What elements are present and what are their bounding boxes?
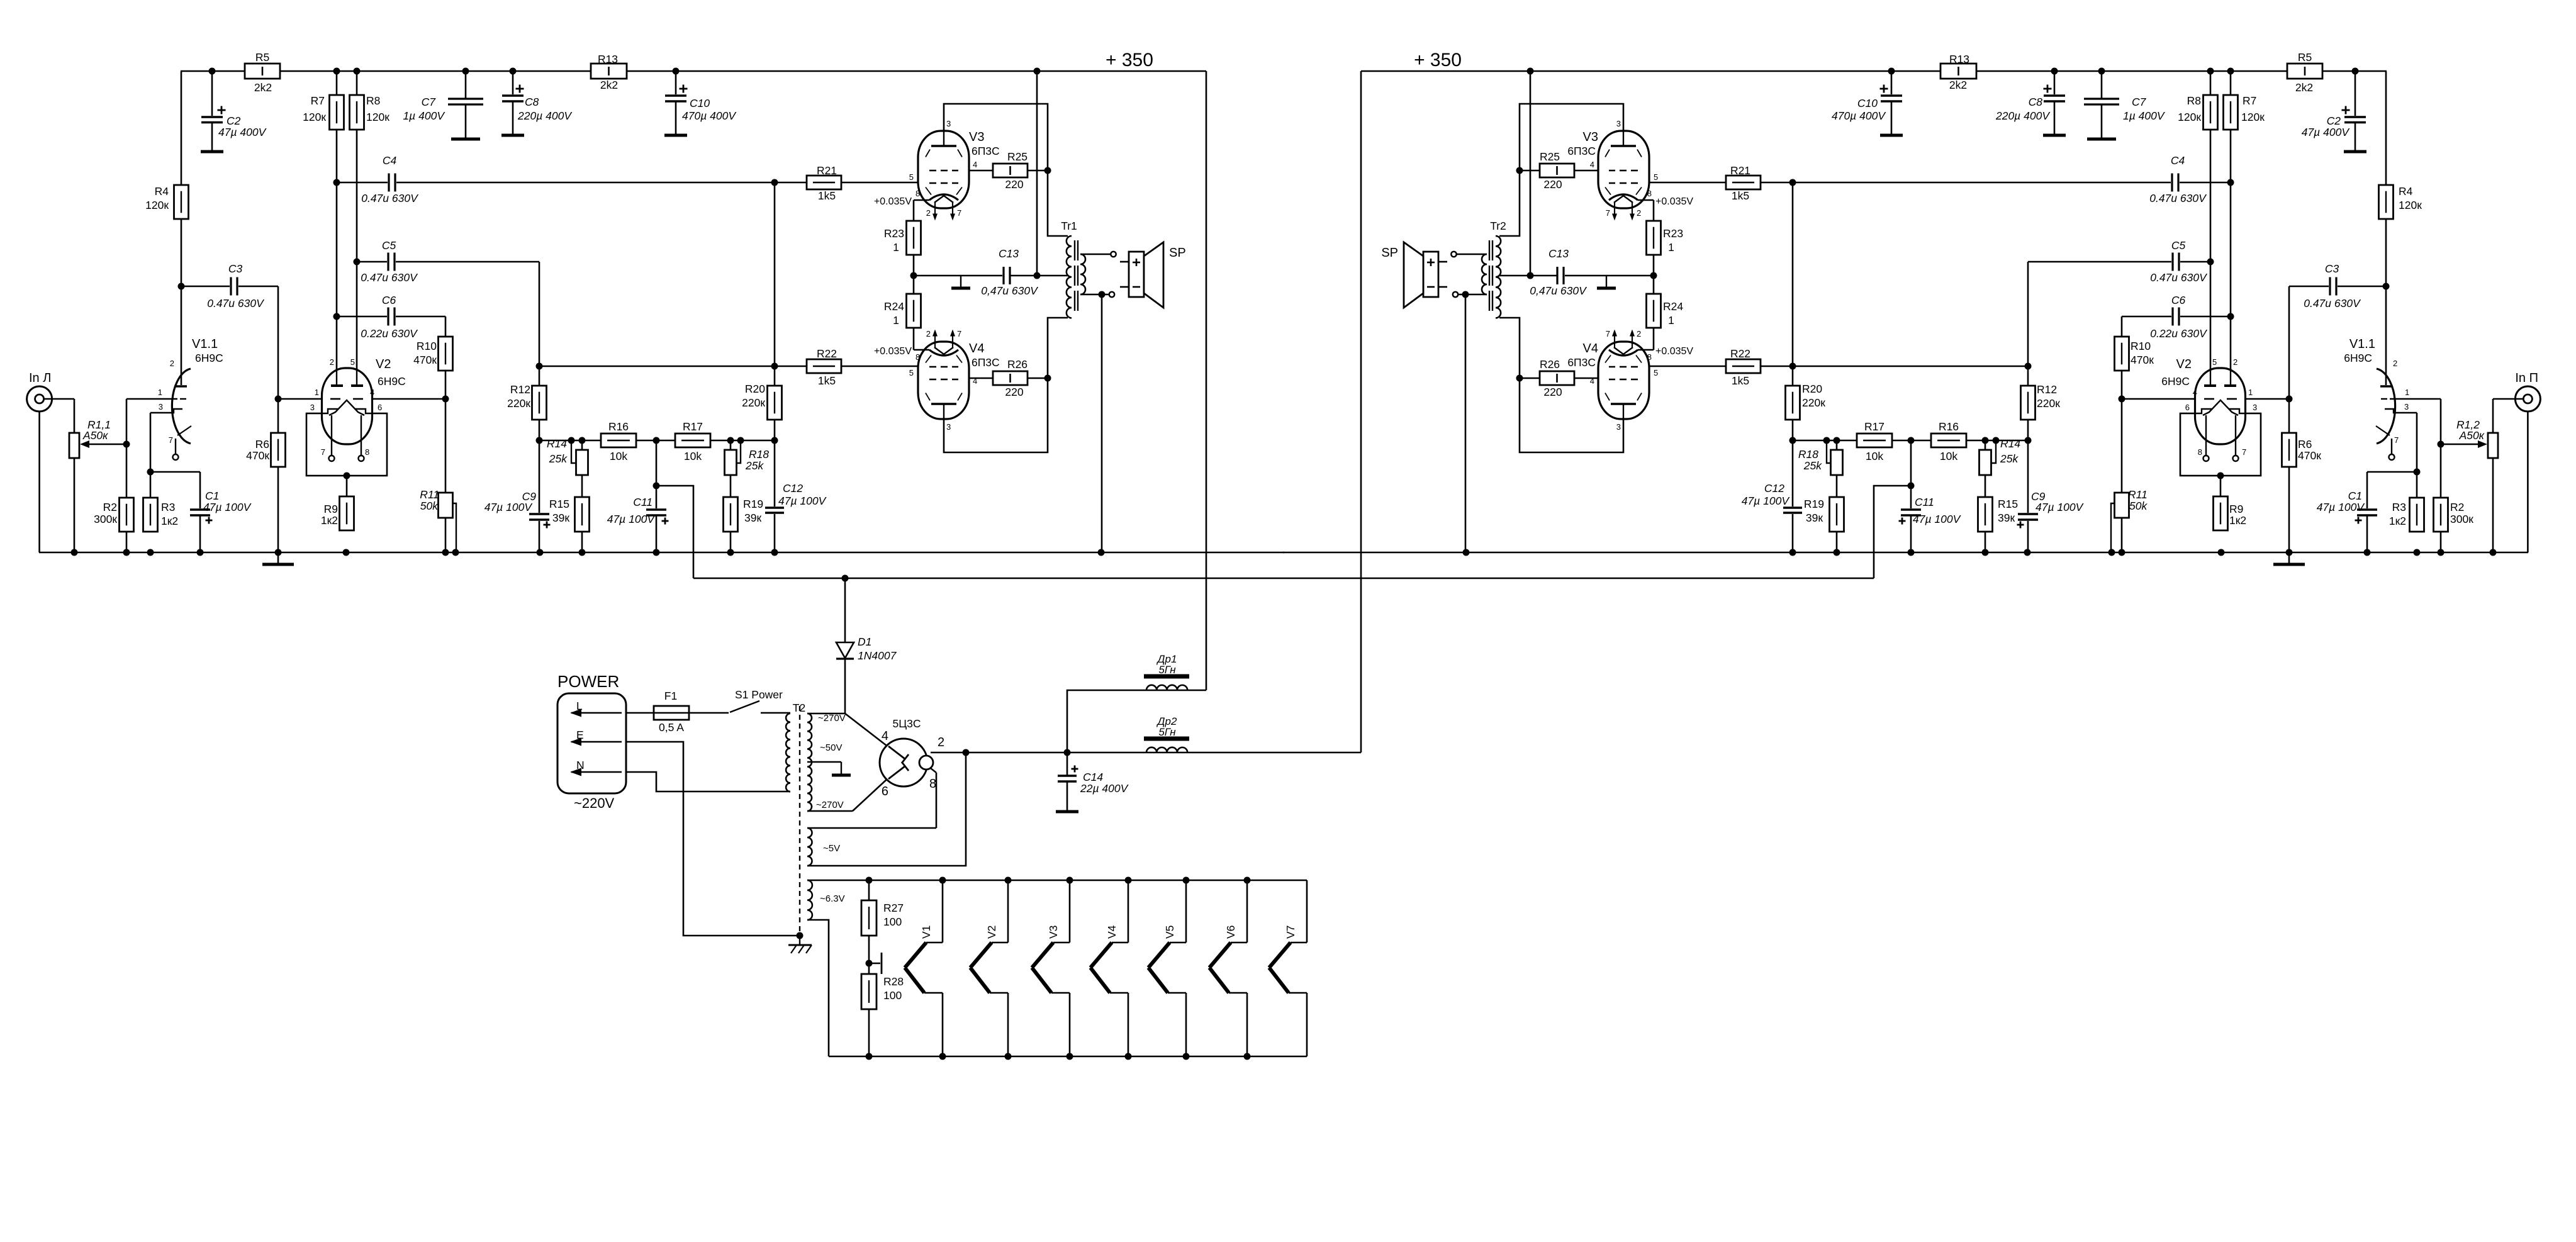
svg-text:5: 5 <box>909 368 914 378</box>
svg-text:7: 7 <box>321 447 325 457</box>
svg-text:10k: 10k <box>1866 450 1883 462</box>
svg-text:4: 4 <box>973 376 977 386</box>
svg-text:D1: D1 <box>858 635 871 648</box>
svg-text:6Н9С: 6Н9С <box>195 352 223 364</box>
svg-text:6П3С: 6П3С <box>1567 145 1596 157</box>
svg-text:V3: V3 <box>1047 926 1060 939</box>
svg-text:C2: C2 <box>227 115 241 127</box>
svg-text:0.47u 630V: 0.47u 630V <box>2150 271 2208 284</box>
svg-text:120к: 120к <box>303 111 326 123</box>
svg-text:R11: R11 <box>420 488 439 501</box>
svg-text:5Ц3С: 5Ц3С <box>892 717 921 730</box>
svg-text:6Н9С: 6Н9С <box>2161 375 2190 388</box>
svg-text:R25: R25 <box>1007 150 1028 163</box>
svg-text:POWER: POWER <box>557 672 619 691</box>
svg-text:50k: 50k <box>2129 500 2148 512</box>
svg-text:220к: 220к <box>507 397 530 410</box>
svg-text:6Н9С: 6Н9С <box>2344 352 2372 364</box>
svg-text:V2: V2 <box>985 926 998 939</box>
svg-text:10k: 10k <box>610 450 627 462</box>
svg-text:47µ 400V: 47µ 400V <box>2302 126 2351 138</box>
svg-text:1: 1 <box>1668 314 1674 327</box>
svg-text:2: 2 <box>938 736 944 749</box>
svg-text:47µ 100V: 47µ 100V <box>2036 501 2085 513</box>
svg-text:+ 350: + 350 <box>1106 50 1153 70</box>
svg-text:R14: R14 <box>2000 437 2020 450</box>
svg-text:SP: SP <box>1169 246 1186 260</box>
svg-text:C5: C5 <box>2171 239 2186 252</box>
svg-text:10k: 10k <box>684 450 702 462</box>
svg-text:R24: R24 <box>884 300 904 313</box>
svg-text:R3: R3 <box>2392 501 2406 513</box>
svg-text:10k: 10k <box>1940 450 1957 462</box>
svg-text:1: 1 <box>2248 388 2253 397</box>
svg-text:F1: F1 <box>664 690 677 702</box>
svg-text:A50к: A50к <box>82 429 108 442</box>
svg-text:R26: R26 <box>1007 358 1028 371</box>
svg-text:+0.035V: +0.035V <box>1655 346 1693 357</box>
svg-text:5: 5 <box>2212 357 2217 367</box>
svg-text:470µ 400V: 470µ 400V <box>682 109 737 122</box>
svg-text:1: 1 <box>1668 241 1674 254</box>
svg-text:220: 220 <box>1543 178 1562 191</box>
svg-text:~50V: ~50V <box>820 742 842 753</box>
svg-text:C8: C8 <box>2029 96 2043 108</box>
svg-text:R19: R19 <box>1804 498 1824 510</box>
svg-text:4: 4 <box>973 160 977 169</box>
svg-text:1: 1 <box>315 388 319 397</box>
svg-text:2k2: 2k2 <box>2295 81 2313 94</box>
svg-text:V2: V2 <box>376 357 391 371</box>
svg-text:R9: R9 <box>324 503 338 515</box>
svg-text:0.47u 630V: 0.47u 630V <box>207 297 265 310</box>
svg-text:2k2: 2k2 <box>254 81 272 94</box>
svg-text:47µ 100V: 47µ 100V <box>2317 501 2366 513</box>
svg-text:220: 220 <box>1543 386 1562 398</box>
svg-text:2: 2 <box>2393 359 2397 368</box>
svg-text:5: 5 <box>1654 172 1658 182</box>
svg-text:470к: 470к <box>2298 449 2321 462</box>
svg-text:470к: 470к <box>2131 354 2154 366</box>
svg-text:7: 7 <box>2394 435 2399 445</box>
svg-text:C8: C8 <box>525 96 539 108</box>
svg-text:N: N <box>576 759 585 771</box>
svg-text:7: 7 <box>1606 208 1610 218</box>
svg-text:R28: R28 <box>883 975 904 988</box>
svg-text:R9: R9 <box>2229 503 2243 515</box>
svg-text:120к: 120к <box>145 199 169 211</box>
svg-text:5: 5 <box>909 172 914 182</box>
svg-text:L: L <box>576 700 583 712</box>
svg-text:3: 3 <box>1616 422 1621 432</box>
svg-text:R22: R22 <box>1730 347 1750 360</box>
svg-text:V1.1: V1.1 <box>2349 337 2375 351</box>
svg-text:220: 220 <box>1005 178 1023 191</box>
svg-text:R5: R5 <box>255 51 269 64</box>
svg-text:R25: R25 <box>1540 150 1560 163</box>
svg-text:220к: 220к <box>1802 396 1825 409</box>
svg-text:C12: C12 <box>783 482 803 495</box>
svg-text:7: 7 <box>957 208 961 218</box>
svg-text:7: 7 <box>169 435 173 445</box>
svg-text:8: 8 <box>916 189 920 198</box>
svg-text:R8: R8 <box>2187 94 2201 107</box>
svg-text:470µ 400V: 470µ 400V <box>1832 109 1886 122</box>
svg-text:V4: V4 <box>969 342 984 355</box>
svg-text:0.47u 630V: 0.47u 630V <box>2304 297 2361 310</box>
svg-text:6: 6 <box>2185 403 2190 412</box>
svg-text:2k2: 2k2 <box>600 79 618 91</box>
svg-text:3: 3 <box>159 402 163 411</box>
svg-text:R2: R2 <box>2450 501 2464 513</box>
svg-text:R17: R17 <box>1864 420 1884 433</box>
svg-text:25k: 25k <box>2000 452 2019 465</box>
svg-text:220к: 220к <box>2037 397 2060 410</box>
svg-text:7: 7 <box>1606 329 1610 338</box>
svg-text:R10: R10 <box>417 340 437 352</box>
svg-text:R12: R12 <box>2037 383 2057 396</box>
svg-text:V4: V4 <box>1106 925 1118 939</box>
svg-text:3: 3 <box>310 403 315 412</box>
svg-text:R13: R13 <box>1949 53 1969 65</box>
svg-text:8: 8 <box>1647 352 1652 362</box>
svg-text:E: E <box>576 729 584 741</box>
svg-text:0.22u 630V: 0.22u 630V <box>2150 327 2208 340</box>
svg-text:3: 3 <box>946 422 951 432</box>
svg-text:C6: C6 <box>382 294 396 306</box>
svg-text:+0.035V: +0.035V <box>874 346 912 357</box>
svg-text:~270V: ~270V <box>816 800 844 810</box>
svg-text:R16: R16 <box>1939 420 1959 433</box>
svg-text:5: 5 <box>1654 368 1658 378</box>
svg-text:1к2: 1к2 <box>2229 514 2246 527</box>
svg-text:R23: R23 <box>884 227 904 240</box>
svg-text:47µ 400V: 47µ 400V <box>218 126 267 138</box>
svg-text:C4: C4 <box>2171 154 2185 167</box>
svg-text:A50к: A50к <box>2459 429 2485 442</box>
svg-text:R17: R17 <box>683 420 703 433</box>
svg-text:R10: R10 <box>2131 340 2151 352</box>
svg-text:In Л: In Л <box>29 371 51 385</box>
svg-text:C3: C3 <box>228 262 243 275</box>
svg-text:2: 2 <box>1637 329 1641 338</box>
svg-text:120к: 120к <box>2241 111 2265 123</box>
svg-text:4: 4 <box>1590 376 1594 386</box>
svg-text:C6: C6 <box>2171 294 2186 306</box>
svg-text:1к2: 1к2 <box>2389 515 2406 527</box>
svg-text:~270V: ~270V <box>818 713 846 724</box>
svg-text:25k: 25k <box>745 459 764 472</box>
svg-text:8: 8 <box>2198 447 2202 457</box>
svg-text:1N4007: 1N4007 <box>858 649 897 662</box>
svg-text:8: 8 <box>916 352 920 362</box>
svg-text:R12: R12 <box>510 383 530 396</box>
svg-text:+ 350: + 350 <box>1414 50 1462 70</box>
svg-text:8: 8 <box>1647 189 1652 198</box>
svg-text:~6.3V: ~6.3V <box>820 893 845 904</box>
svg-text:V3: V3 <box>1583 130 1598 144</box>
svg-text:C4: C4 <box>383 154 397 167</box>
svg-text:6П3С: 6П3С <box>972 145 1000 157</box>
svg-text:50k: 50k <box>420 500 439 512</box>
svg-text:2: 2 <box>926 329 931 338</box>
svg-text:0,47u 630V: 0,47u 630V <box>981 284 1039 297</box>
svg-text:In П: In П <box>2515 371 2538 385</box>
svg-text:3: 3 <box>2404 402 2409 411</box>
svg-text:8: 8 <box>929 777 936 791</box>
svg-text:1: 1 <box>893 314 899 327</box>
svg-text:0.47u 630V: 0.47u 630V <box>2149 192 2207 204</box>
svg-text:V7: V7 <box>1284 926 1297 939</box>
svg-text:R20: R20 <box>1802 383 1822 395</box>
svg-text:1k5: 1k5 <box>818 374 836 387</box>
svg-text:1µ 400V: 1µ 400V <box>403 109 445 122</box>
svg-text:C10: C10 <box>690 97 710 109</box>
svg-text:Tr1: Tr1 <box>1061 220 1077 232</box>
svg-text:2: 2 <box>2233 357 2237 367</box>
svg-text:C7: C7 <box>2132 96 2147 108</box>
svg-text:7: 7 <box>957 329 961 338</box>
svg-text:1k5: 1k5 <box>818 189 836 202</box>
svg-text:0,5 A: 0,5 A <box>659 721 684 734</box>
svg-text:39к: 39к <box>744 512 761 524</box>
svg-text:R21: R21 <box>1730 164 1750 177</box>
svg-text:R11: R11 <box>2128 488 2148 501</box>
svg-text:V1.1: V1.1 <box>192 337 218 351</box>
svg-text:1µ 400V: 1µ 400V <box>2123 109 2166 122</box>
svg-text:25k: 25k <box>549 452 568 465</box>
svg-text:3: 3 <box>2253 403 2257 412</box>
svg-text:7: 7 <box>2242 447 2246 457</box>
svg-text:22µ 400V: 22µ 400V <box>1080 782 1129 795</box>
svg-text:6: 6 <box>882 785 888 798</box>
svg-text:+0.035V: +0.035V <box>1655 196 1693 207</box>
svg-text:39к: 39к <box>552 512 569 524</box>
svg-text:1: 1 <box>158 388 162 397</box>
svg-text:R4: R4 <box>155 185 169 198</box>
svg-text:V5: V5 <box>1163 926 1176 939</box>
svg-text:R20: R20 <box>745 383 765 395</box>
svg-text:47µ 100V: 47µ 100V <box>484 501 534 513</box>
svg-text:470к: 470к <box>413 354 437 366</box>
svg-text:0,47u 630V: 0,47u 630V <box>1530 284 1588 297</box>
svg-text:3: 3 <box>946 119 951 128</box>
svg-text:470к: 470к <box>246 449 269 462</box>
svg-text:C12: C12 <box>1764 482 1784 495</box>
svg-text:2: 2 <box>330 357 334 367</box>
svg-text:120к: 120к <box>366 111 389 123</box>
svg-text:100: 100 <box>883 989 902 1002</box>
svg-text:220µ 400V: 220µ 400V <box>517 109 573 122</box>
svg-text:C13: C13 <box>1548 247 1569 260</box>
svg-text:R22: R22 <box>817 347 837 360</box>
svg-text:300к: 300к <box>94 513 117 525</box>
svg-text:~220V: ~220V <box>574 795 615 811</box>
svg-text:0.47u 630V: 0.47u 630V <box>361 271 418 284</box>
svg-text:R6: R6 <box>255 438 269 450</box>
svg-text:R7: R7 <box>2243 94 2256 107</box>
svg-text:220к: 220к <box>742 396 765 409</box>
svg-text:R26: R26 <box>1540 358 1560 371</box>
svg-text:5: 5 <box>350 357 355 367</box>
svg-text:R24: R24 <box>1663 300 1683 313</box>
svg-text:C14: C14 <box>1083 771 1103 783</box>
svg-text:T2: T2 <box>793 702 805 714</box>
svg-text:0.47u 630V: 0.47u 630V <box>361 192 419 204</box>
svg-text:6Н9С: 6Н9С <box>378 375 406 388</box>
svg-text:47µ 100V: 47µ 100V <box>203 501 252 513</box>
svg-text:C1: C1 <box>205 490 219 502</box>
svg-text:R8: R8 <box>366 94 380 107</box>
svg-text:6П3С: 6П3С <box>1567 356 1596 369</box>
svg-text:100: 100 <box>883 915 902 928</box>
svg-text:SP: SP <box>1381 246 1398 260</box>
svg-text:R2: R2 <box>103 501 117 513</box>
svg-text:R14: R14 <box>547 437 567 450</box>
svg-text:47µ 100V: 47µ 100V <box>1913 513 1962 525</box>
svg-text:C2: C2 <box>2327 115 2341 127</box>
svg-text:R19: R19 <box>743 498 763 510</box>
svg-text:R7: R7 <box>311 94 325 107</box>
svg-text:47µ 100V: 47µ 100V <box>607 513 656 525</box>
svg-text:R15: R15 <box>549 498 569 510</box>
svg-text:1: 1 <box>2405 388 2409 397</box>
svg-text:R3: R3 <box>161 501 175 513</box>
svg-text:R15: R15 <box>1998 498 2018 510</box>
svg-text:R18: R18 <box>749 448 769 461</box>
svg-text:R16: R16 <box>608 420 629 433</box>
svg-text:V6: V6 <box>1224 926 1237 939</box>
svg-text:C7: C7 <box>422 96 437 108</box>
svg-text:C3: C3 <box>2325 262 2339 275</box>
svg-text:R13: R13 <box>598 53 618 65</box>
svg-text:V4: V4 <box>1583 342 1598 355</box>
svg-text:V1: V1 <box>920 926 932 939</box>
svg-text:47µ 100V: 47µ 100V <box>778 495 827 507</box>
svg-text:4: 4 <box>1590 160 1594 169</box>
svg-text:Tr2: Tr2 <box>1490 220 1506 232</box>
svg-text:C13: C13 <box>999 247 1019 260</box>
svg-text:120к: 120к <box>2178 111 2201 123</box>
svg-text:6: 6 <box>378 403 382 412</box>
svg-text:C1: C1 <box>2348 490 2362 502</box>
svg-text:1k5: 1k5 <box>1732 189 1749 202</box>
svg-text:2k2: 2k2 <box>1949 79 1967 91</box>
svg-text:R6: R6 <box>2298 438 2312 450</box>
svg-text:5Гн: 5Гн <box>1158 726 1176 738</box>
svg-text:1к2: 1к2 <box>161 515 178 527</box>
svg-text:4: 4 <box>370 388 374 397</box>
svg-text:V2: V2 <box>2176 357 2192 371</box>
svg-text:6П3С: 6П3С <box>972 356 1000 369</box>
svg-text:R23: R23 <box>1663 227 1683 240</box>
svg-text:39к: 39к <box>1998 512 2015 524</box>
svg-text:8: 8 <box>365 447 369 457</box>
svg-text:5Гн: 5Гн <box>1158 664 1176 676</box>
svg-text:120к: 120к <box>2399 199 2422 211</box>
svg-text:R4: R4 <box>2399 185 2413 198</box>
svg-text:R5: R5 <box>2298 51 2312 64</box>
svg-text:4: 4 <box>2193 388 2197 397</box>
svg-text:220: 220 <box>1005 386 1023 398</box>
svg-text:R27: R27 <box>883 902 904 914</box>
svg-text:220µ 400V: 220µ 400V <box>1995 109 2051 122</box>
svg-text:C5: C5 <box>382 239 396 252</box>
svg-text:47µ 100V: 47µ 100V <box>1742 495 1791 507</box>
svg-text:3: 3 <box>1616 119 1621 128</box>
svg-text:39к: 39к <box>1806 512 1823 524</box>
svg-text:R18: R18 <box>1798 448 1818 461</box>
svg-text:1k5: 1k5 <box>1732 374 1749 387</box>
svg-text:C10: C10 <box>1857 97 1878 109</box>
svg-text:V3: V3 <box>969 130 984 144</box>
svg-text:~5V: ~5V <box>823 843 840 854</box>
svg-text:300к: 300к <box>2450 513 2473 525</box>
svg-text:S1 Power: S1 Power <box>735 688 783 701</box>
svg-text:C11: C11 <box>633 496 652 508</box>
svg-text:4: 4 <box>882 729 888 743</box>
svg-text:0.22u 630V: 0.22u 630V <box>361 327 418 340</box>
svg-text:1к2: 1к2 <box>321 514 338 527</box>
svg-text:2: 2 <box>170 359 174 368</box>
svg-text:2: 2 <box>926 208 931 218</box>
svg-text:2: 2 <box>1637 208 1641 218</box>
svg-text:R21: R21 <box>817 164 837 177</box>
svg-text:1: 1 <box>893 241 899 254</box>
svg-text:25k: 25k <box>1803 459 1822 472</box>
svg-text:+0.035V: +0.035V <box>874 196 912 207</box>
svg-text:C11: C11 <box>1915 496 1934 508</box>
